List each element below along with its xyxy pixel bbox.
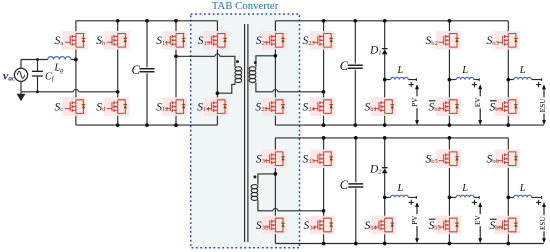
svg-text:PV: PV [411,97,419,107]
junction - winding1 lead at S_11/S_12 midpoint [174,54,178,58]
junction - C_f top tap [36,58,39,61]
wire - leg of S_b/S_d [117,21,119,125]
transistor S_32 [262,216,287,235]
junction - return rail at S_b/S_d midpoint [116,90,120,94]
junction - winding3 lead at S_33/S_34 midpoint [322,209,326,213]
svg-text:L: L [397,65,404,76]
junction - bottom bus / S_d leg [116,123,120,127]
wire - leg of S_b6/S-bar_b6 [507,138,509,244]
wire - leg of S_23/S_24 [323,21,325,125]
junction - port3 bottom bus / S-bar_b6 leg [506,242,510,246]
transistor S_24 [310,97,335,116]
wire - dc-link capacitor C column (port3) [355,138,357,244]
PV port voltage arrow (top half) [415,84,419,125]
transistor S_13 [204,31,229,50]
junction - top bus / C column port1 [145,19,149,23]
transistor S-bar_b3 [495,97,520,116]
inductor L coil at ESU (top half) [514,77,532,79]
junction - ESU inductor tap (bottom half) [506,196,510,200]
junction - bottom bus / S_b1 leg [383,123,387,127]
junction - bottom bus / C column port2 [353,123,357,127]
junction - bottom bus / S_24 leg [322,123,326,127]
transistor S_b3 [495,31,520,50]
junction - port3 bottom bus / C column [354,242,358,246]
capacitor C plates (port2 dc link) [348,65,363,68]
plus sign ESU (bottom half) [536,200,541,205]
plus sign ESU (top half) [536,82,541,87]
junction - port3 top bus / S_b5 leg [448,136,452,140]
wire - inductor L leads at ESU buck leg (bottom half) [508,196,541,199]
svg-text:C: C [340,59,349,73]
junction - top bus / C column port2 [353,19,357,23]
wire - port3 negative dc bus (bottom, lower half) [275,243,543,245]
wire - winding2 bottom lead with hop over S_21/S_22 leg to S_23/S_24 midpoint [256,82,324,91]
junction - bottom bus / S-bar_b2 leg [448,123,452,127]
junction - ESU inductor tap (top half) [506,78,510,82]
wire - winding3 bottom lead with hop over S_31/S_32 leg to S_33/S_34 midpoint [258,200,324,211]
wire - leg of D_2/S_b4 [384,138,386,244]
svg-text:C: C [132,63,141,77]
inductor L coil at PV (bottom half) [391,195,409,197]
transformer winding 3 (port3) [251,185,258,201]
transistor S_33 [310,149,335,168]
wire - inductor L leads at ESU buck leg (top half) [508,78,541,81]
transistor S_34 [310,216,335,235]
diode D2 [382,167,388,169]
junction - winding1 lead at S_13/S_14 midpoint [216,91,220,95]
wire - leg of S_a/S_c [75,21,77,125]
wire - port1 positive dc bus (top) [76,20,218,22]
junction - port3 bottom bus / S-bar_b5 leg [448,242,452,246]
junction - top bus / S_11 leg [174,19,178,23]
wire - inductor L leads at EV buck leg (top half) [449,78,479,81]
svg-text:L: L [519,65,526,76]
junction - PV inductor tap (top half) [383,78,387,82]
junction - port3 bottom bus / S_34 leg [322,242,326,246]
polarity dot winding 3 [253,175,256,178]
wire - inductor L leads at PV buck leg (bottom half) [385,196,417,199]
junction - EV inductor tap (top half) [448,78,452,82]
svg-text:EV: EV [474,97,482,107]
junction - bottom bus / C column port1 [145,123,149,127]
TAB converter boundary box [191,14,300,248]
junction - winding3 lead at S_31/S_32 midpoint [274,172,278,176]
plus sign PV (bottom half) [409,200,414,205]
wire - dc-link capacitor C column (port1) [146,21,148,125]
wire - filter capacitor C_f column [37,60,39,92]
junction - top bus / D_1 leg [383,19,387,23]
wire - winding1 top lead from S_11/S_12 midpoint with hop over S_13/S_14 leg [176,54,235,67]
junction - top bus / S_b leg [116,19,120,23]
transistor S_22 [262,97,287,116]
transistor S-bar_b2 [436,97,461,116]
wire - leg of S_13/S_14 [216,21,218,125]
junction - C_f bottom tap [36,90,39,93]
junction - port3 bottom bus / S_b4 leg [383,242,387,246]
transistor S_a [62,31,87,50]
svg-text:L: L [397,183,404,194]
wire - leg of S_b5/S-bar_b5 [448,138,450,244]
junction - bottom bus / S_12 leg [174,123,178,127]
sine symbol inside source [17,71,24,78]
ESU port voltage arrow (bottom half) [542,202,546,243]
ESU port voltage arrow (top half) [542,84,546,125]
wire - winding1 bottom lead staircase to S_13/S_14 midpoint [217,82,235,93]
svg-text:TAB Converter: TAB Converter [212,0,279,12]
svg-text:ESU: ESU [539,216,547,230]
ground [20,92,22,94]
wire - leg of S_21/S_22 [274,21,276,125]
wire - dc-link capacitor C column (port2) [354,21,356,125]
junction - L_g output at S_a/S_c midpoint [74,58,78,62]
transistor S_23 [310,31,335,50]
svg-text:EV: EV [474,215,482,225]
EV port voltage arrow (bottom half) [478,202,482,243]
wire - leg of S_31/S_32 [274,138,276,244]
transistor S_b4 [371,216,396,235]
junction - PV inductor tap (bottom half) [383,196,387,200]
transistor S_b [104,31,129,50]
diode D1 [382,48,388,50]
transistor S_21 [262,31,287,50]
inductor L coil at EV (bottom half) [456,195,474,197]
junction - port3 top bus / S_33 leg [322,136,326,140]
transistor S_31 [262,149,287,168]
ac voltage source v_ac [14,68,27,81]
transistor S-bar_b5 [436,216,461,235]
wire - ac return rail with crossover hop at leg S_a/S_c [21,81,118,91]
svg-text:L: L [461,183,468,194]
transistor S_d [104,97,129,116]
wire - inductor L leads at EV buck leg (bottom half) [449,196,479,199]
junction - top bus / S_23 leg [322,19,326,23]
wire - port2 positive dc bus (top) [275,20,508,22]
svg-text:PV: PV [411,215,419,225]
inductor L_g coil [48,57,71,60]
polarity dot winding 1 [236,60,239,63]
transistor S_c [62,97,87,116]
transformer core [245,24,248,242]
junction - winding2 lead at S_21/S_22 midpoint [274,54,278,58]
inductor L coil at PV (top half) [391,77,409,79]
inductor L coil at EV (top half) [456,77,474,79]
wire - port3 positive dc bus (top, lower half) [275,137,508,139]
wire - winding3 top lead to S_31/S_32 midpoint [258,174,276,185]
plus sign PV (top half) [409,82,414,87]
capacitor C_f plates [32,71,43,76]
transistor S_14 [204,97,229,116]
transistor S_12 [163,97,188,116]
EV port voltage arrow (top half) [478,84,482,125]
wire - leg of S_33/S_34 [323,138,325,244]
junction - winding2 lead at S_23/S_24 midpoint [322,90,326,94]
svg-text:L: L [519,183,526,194]
capacitor C plates (port3 dc link) [348,184,363,187]
junction - top bus / S_b2 leg [448,19,452,23]
junction - bottom bus / S-bar_b3 leg [506,123,510,127]
wire - leg of S_b2/S-bar_b2 [448,21,450,125]
junction - port3 top bus / D_2 leg [383,136,387,140]
svg-text:ESU: ESU [539,98,547,112]
inductor L coil at ESU (bottom half) [514,195,532,197]
wire - winding2 top lead to S_21/S_22 midpoint [256,56,276,67]
transistor S_b2 [436,31,461,50]
wire - ac source top lead to L_g [21,60,76,69]
wire - leg of S_11/S_12 [175,21,177,125]
transistor S_11 [163,31,188,50]
wire - port2 negative dc bus (bottom) [275,124,543,126]
plus sign EV (bottom half) [472,200,477,205]
transistor S_b6 [495,149,520,168]
svg-text:L: L [461,65,468,76]
transistor S_b1 [371,97,396,116]
plus sign EV (top half) [472,82,477,87]
capacitor C plates (port1 dc link) [140,69,155,72]
transformer winding 2 (port2) [249,67,256,83]
junction - EV inductor tap (bottom half) [448,196,452,200]
PV port voltage arrow (bottom half) [415,202,419,243]
polarity dot winding 2 [254,61,257,64]
wire - leg of D_1/S_b1 [384,21,386,125]
transistor S-bar_b6 [495,216,520,235]
junction - port3 top bus / C column [354,136,358,140]
transformer winding 1 (port1) [235,67,242,83]
wire - inductor L leads at PV buck leg (top half) [385,78,417,81]
svg-text:C: C [340,178,349,192]
transistor S_b5 [436,149,461,168]
wire - port1 negative dc bus (bottom) [76,124,218,126]
wire - leg of S_b3/S-bar_b3 [507,21,509,125]
